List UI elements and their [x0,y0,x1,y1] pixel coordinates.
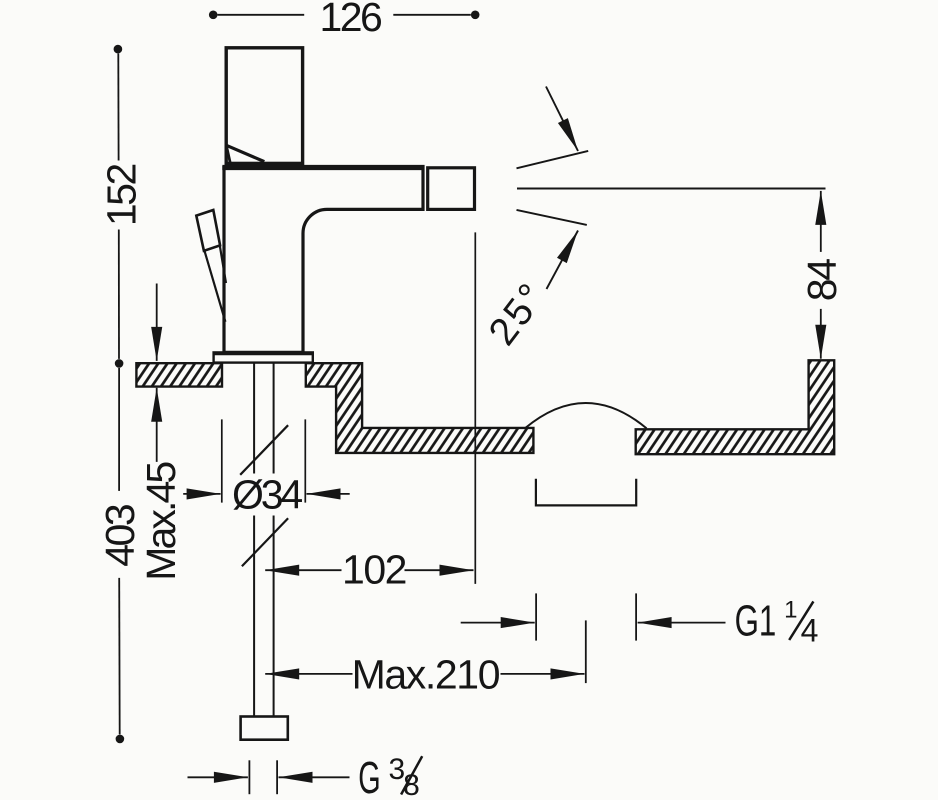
svg-text:Ø34: Ø34 [232,472,302,518]
svg-text:G: G [358,754,380,800]
svg-text:102: 102 [342,547,406,593]
svg-text:1: 1 [784,597,797,624]
svg-text:G1: G1 [735,596,777,646]
svg-text:84: 84 [799,259,845,302]
svg-text:Max.45: Max.45 [138,462,184,581]
svg-text:126: 126 [319,0,381,40]
svg-text:Max.210: Max.210 [352,651,500,697]
svg-text:4: 4 [801,612,819,648]
svg-text:8: 8 [403,769,420,800]
svg-text:403: 403 [97,505,143,567]
svg-text:152: 152 [99,165,145,227]
